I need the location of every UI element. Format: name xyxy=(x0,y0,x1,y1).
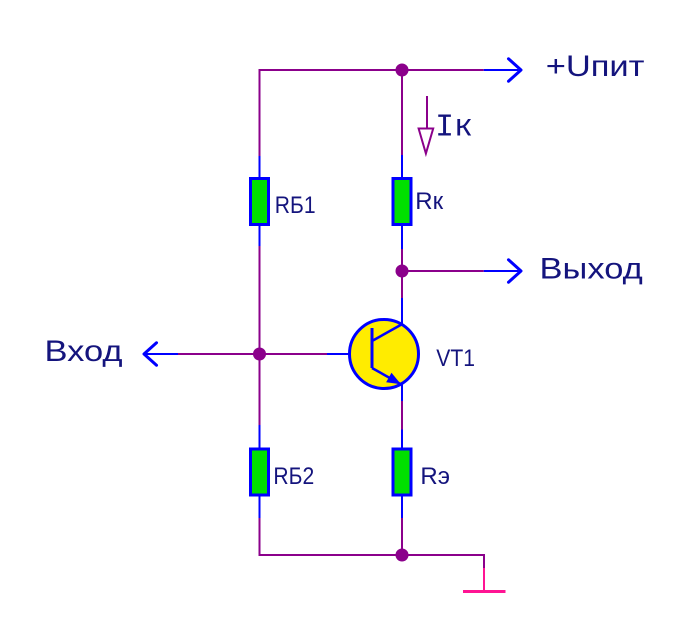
svg-text:RБ1: RБ1 xyxy=(275,192,316,219)
svg-text:Выход: Выход xyxy=(540,252,643,285)
svg-text:Rэ: Rэ xyxy=(420,463,450,490)
svg-text:+Uпит: +Uпит xyxy=(546,49,645,82)
svg-text:Вход: Вход xyxy=(45,334,123,367)
svg-text:Rк: Rк xyxy=(415,188,443,215)
svg-text:VT1: VT1 xyxy=(436,345,475,372)
svg-text:Iк: Iк xyxy=(435,111,473,146)
svg-text:RБ2: RБ2 xyxy=(273,463,314,490)
